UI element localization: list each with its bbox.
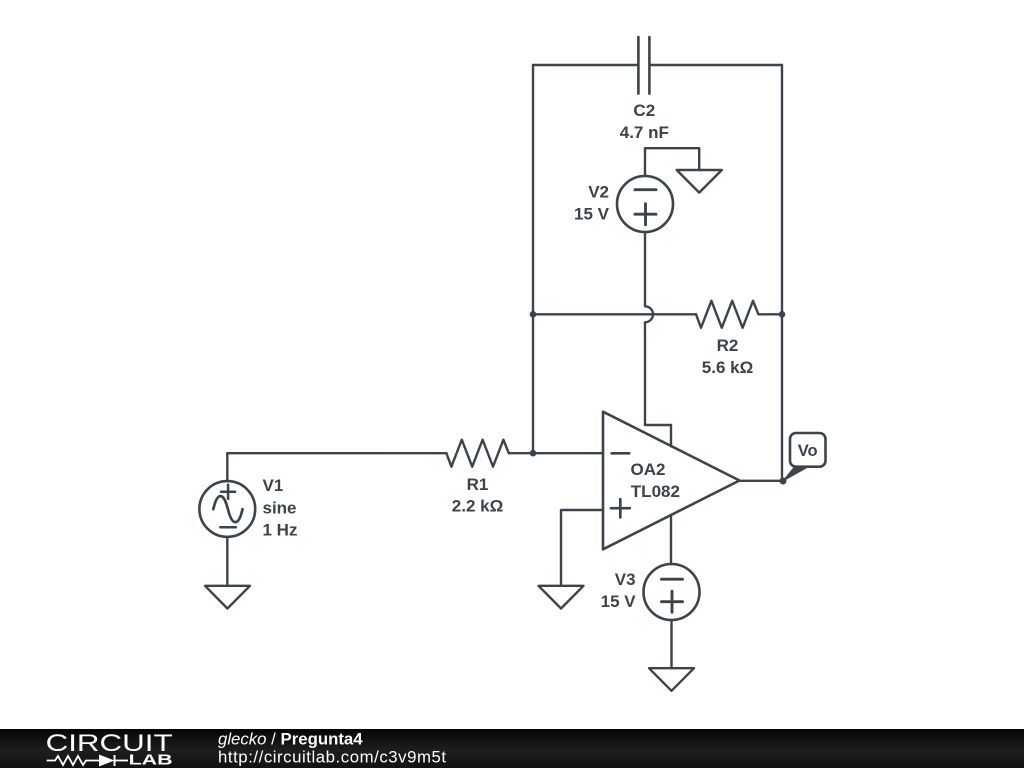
wire V1 to R1 bbox=[227, 452, 446, 454]
svg-text:http://circuitlab.com/c3v9m5t: http://circuitlab.com/c3v9m5t bbox=[218, 747, 447, 766]
node flag Vo bbox=[783, 433, 826, 481]
ground GND3 (op-amp + input) bbox=[539, 586, 584, 609]
wire R2 right to right rail bbox=[758, 313, 782, 315]
footer bar bbox=[0, 729, 1024, 768]
svg-text:glecko / Pregunta4: glecko / Pregunta4 bbox=[218, 730, 363, 749]
resistor R1 bbox=[446, 440, 508, 467]
ground GND2 (V2) bbox=[677, 170, 722, 193]
op-amp plus input mark bbox=[611, 499, 630, 517]
wire non-inverting input to ground bbox=[561, 510, 603, 586]
svg-text:15 V: 15 V bbox=[601, 592, 637, 611]
capacitor C2 bbox=[638, 37, 649, 94]
svg-text:OA2: OA2 bbox=[631, 460, 666, 479]
wire left rail vertical bbox=[532, 65, 534, 453]
V1 sine waveform bbox=[213, 496, 242, 522]
op-amp minus input mark bbox=[612, 452, 630, 455]
ground GND1 (V1) bbox=[205, 586, 250, 609]
svg-text:2.2 kΩ: 2.2 kΩ bbox=[452, 497, 503, 516]
wire V2 bottom with hop over feedback wire, jog to op-amp V+ pin bbox=[645, 232, 671, 447]
svg-text:4.7 nF: 4.7 nF bbox=[620, 123, 669, 142]
voltage source V2 bbox=[617, 176, 673, 232]
svg-text:V2: V2 bbox=[588, 183, 609, 202]
svg-text:Vo: Vo bbox=[798, 442, 818, 460]
svg-text:R2: R2 bbox=[717, 336, 739, 355]
resistor R2 bbox=[696, 301, 758, 328]
wire V3 bottom lead bbox=[670, 620, 672, 668]
wire V1 bottom lead bbox=[226, 537, 228, 586]
wire V2 top lead and jog to ground bbox=[645, 148, 699, 176]
svg-text:C2: C2 bbox=[633, 101, 655, 120]
junction node inverting input bbox=[530, 450, 537, 457]
junction node output Vo bbox=[780, 478, 787, 485]
wire op-amp V- pin to V3 bbox=[670, 516, 672, 564]
svg-text:LAB: LAB bbox=[129, 752, 173, 768]
ground GND4 (V3) bbox=[649, 668, 694, 691]
voltage source V3 bbox=[644, 564, 700, 620]
svg-text:1 Hz: 1 Hz bbox=[263, 521, 298, 540]
CircuitLab logo resistor-diode squiggle bbox=[47, 755, 128, 766]
svg-text:V1: V1 bbox=[263, 476, 284, 495]
svg-text:V3: V3 bbox=[615, 570, 636, 589]
wire right rail vertical bbox=[781, 65, 783, 481]
svg-text:sine: sine bbox=[263, 498, 297, 517]
voltage source V1 (sine) bbox=[199, 481, 255, 537]
op-amp OA2 triangle bbox=[603, 412, 740, 550]
svg-text:R1: R1 bbox=[467, 475, 489, 494]
svg-text:TL082: TL082 bbox=[631, 482, 680, 501]
wire top-right from C2 right plate to right rail bbox=[651, 64, 782, 66]
wire inverting input row bbox=[533, 452, 603, 454]
junction node feedback-right bbox=[779, 311, 786, 318]
svg-text:5.6 kΩ: 5.6 kΩ bbox=[702, 358, 753, 377]
wire top-left from node to C2 left plate bbox=[533, 64, 637, 66]
wire feedback row left (node to R2) bbox=[533, 313, 696, 315]
wire R1 right to node bbox=[509, 452, 533, 454]
junction node feedback-left bbox=[530, 311, 537, 318]
wire op-amp output bbox=[740, 480, 784, 482]
svg-text:15 V: 15 V bbox=[574, 204, 610, 223]
wire V1 top lead bbox=[226, 453, 228, 481]
